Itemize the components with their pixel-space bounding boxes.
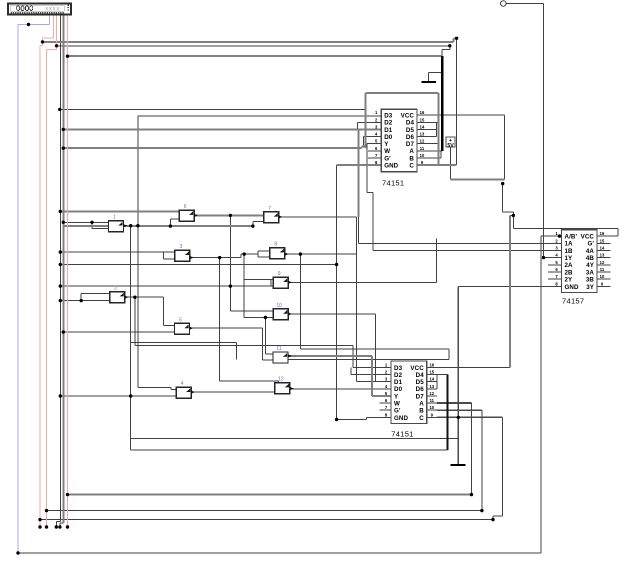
svg-text:14: 14 (429, 377, 434, 382)
svg-text:A: A (419, 400, 424, 407)
svg-text:13: 13 (429, 384, 434, 389)
svg-text:15: 15 (600, 238, 605, 243)
svg-text:5V: 5V (447, 143, 454, 149)
svg-text:GND: GND (394, 415, 408, 422)
svg-text:14: 14 (600, 246, 605, 251)
svg-text:10: 10 (429, 405, 434, 410)
svg-text:2: 2 (114, 286, 117, 292)
svg-text:GND: GND (565, 284, 579, 291)
svg-text:13: 13 (420, 132, 425, 137)
svg-text:A/B′: A/B′ (565, 234, 578, 241)
svg-text:12: 12 (600, 260, 605, 265)
svg-text:D6: D6 (406, 134, 415, 141)
svg-text:C: C (419, 415, 424, 422)
svg-text:W: W (384, 148, 390, 155)
svg-text:9: 9 (278, 271, 281, 277)
svg-text:1B: 1B (565, 248, 574, 255)
svg-text:D3: D3 (394, 365, 403, 372)
svg-text:VCC: VCC (410, 365, 424, 372)
svg-text:14: 14 (420, 124, 425, 129)
svg-text:12: 12 (420, 139, 425, 144)
svg-text:11: 11 (420, 146, 425, 151)
svg-text:3Y: 3Y (586, 284, 595, 291)
svg-text:D6: D6 (416, 386, 425, 393)
svg-text:VCC: VCC (401, 113, 415, 120)
svg-text:74151: 74151 (382, 179, 404, 188)
svg-text:C: C (409, 163, 414, 170)
svg-text:16: 16 (420, 110, 425, 115)
svg-text:8: 8 (274, 242, 277, 248)
svg-text:5: 5 (179, 317, 182, 323)
svg-text:G′: G′ (384, 155, 391, 162)
svg-text:1: 1 (113, 215, 116, 221)
svg-text:D7: D7 (406, 141, 415, 148)
svg-text:D1: D1 (394, 379, 403, 386)
svg-text:2Y: 2Y (565, 277, 574, 284)
svg-text:B: B (409, 155, 414, 162)
svg-text:GND: GND (384, 163, 398, 170)
svg-text:B: B (419, 408, 424, 415)
svg-text:1Y: 1Y (565, 255, 574, 262)
svg-text:74151: 74151 (391, 430, 413, 439)
svg-text:15: 15 (429, 370, 434, 375)
svg-text:4A: 4A (586, 248, 595, 255)
svg-text:13: 13 (600, 253, 605, 258)
svg-text:15: 15 (420, 117, 425, 122)
svg-text:D7: D7 (416, 393, 425, 400)
svg-text:16: 16 (429, 362, 434, 367)
svg-text:W: W (394, 400, 400, 407)
svg-text:D1: D1 (384, 127, 393, 134)
svg-text:6: 6 (184, 204, 187, 210)
svg-text:D3: D3 (384, 113, 393, 120)
svg-text:xxxx: xxxx (45, 5, 60, 12)
svg-text:D5: D5 (406, 127, 415, 134)
svg-text:G′: G′ (394, 408, 401, 415)
svg-text:3: 3 (180, 244, 183, 250)
svg-text:11: 11 (276, 346, 281, 352)
svg-text:7: 7 (268, 206, 271, 212)
svg-text:12: 12 (429, 391, 434, 396)
svg-text:10: 10 (600, 274, 605, 279)
svg-text:D4: D4 (406, 120, 415, 127)
svg-text:10: 10 (276, 303, 282, 309)
svg-text:4B: 4B (586, 255, 595, 262)
svg-text:11: 11 (430, 398, 435, 403)
svg-text:4Y: 4Y (586, 262, 595, 269)
svg-text:3A: 3A (586, 269, 595, 276)
svg-text:12: 12 (278, 377, 284, 383)
svg-text:2B: 2B (565, 269, 574, 276)
svg-text:4: 4 (181, 381, 184, 387)
svg-text:3B: 3B (586, 277, 595, 284)
svg-text:10: 10 (420, 153, 425, 158)
svg-text:D4: D4 (416, 372, 425, 379)
svg-text:1A: 1A (565, 241, 574, 248)
svg-text:D0: D0 (384, 134, 393, 141)
svg-text:G′: G′ (588, 241, 595, 248)
svg-text:74157: 74157 (562, 297, 584, 306)
svg-text:A: A (409, 148, 414, 155)
svg-text:D2: D2 (384, 120, 393, 127)
svg-text:VCC: VCC (581, 234, 595, 241)
svg-text:D2: D2 (394, 372, 403, 379)
svg-text:2A: 2A (565, 262, 574, 269)
svg-text:11: 11 (600, 267, 605, 272)
svg-text:D0: D0 (394, 386, 403, 393)
svg-text:16: 16 (600, 231, 605, 236)
svg-text:D5: D5 (416, 379, 425, 386)
